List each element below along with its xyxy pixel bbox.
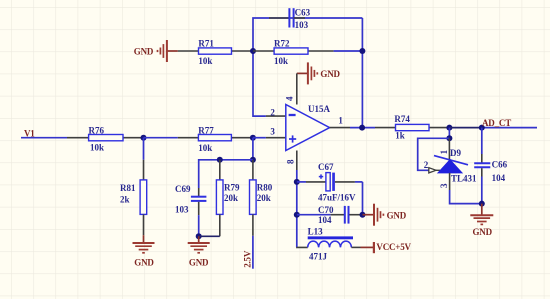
svg-text:1k: 1k (395, 131, 405, 141)
pin number 3 (270, 127, 275, 137)
svg-text:L13: L13 (308, 227, 324, 237)
ground GND at pin4 (297, 62, 341, 84)
node B junction (250, 135, 256, 141)
resistor R71 (178, 39, 253, 67)
svg-text:R76: R76 (89, 125, 105, 135)
svg-text:C66: C66 (492, 159, 508, 169)
wire mid row horizontal (199, 160, 253, 188)
pin number 8 (286, 159, 296, 164)
wire feedback loop to ref pin (418, 138, 450, 170)
wire (21, 137, 67, 139)
wire R79 bottom connector (199, 235, 220, 237)
node junction output (359, 125, 365, 131)
node junction R71/R72 (250, 48, 256, 54)
wire D9 anode to ground row (450, 190, 482, 204)
svg-text:C69: C69 (175, 184, 191, 194)
node junction mid row R79 (217, 157, 223, 163)
wire (144, 137, 178, 139)
svg-text:2.5V: 2.5V (243, 250, 253, 268)
resistor R80 (250, 160, 273, 236)
node A junction (141, 135, 147, 141)
svg-text:1: 1 (338, 115, 343, 125)
pin number 2 (270, 107, 275, 117)
op-amp U15A (286, 104, 331, 151)
svg-text:3: 3 (439, 183, 449, 188)
wire 2.5V net (252, 236, 254, 269)
svg-text:U15A: U15A (308, 104, 330, 114)
wire AD_CT row (449, 127, 537, 129)
svg-text:GND: GND (189, 258, 209, 268)
svg-text:20k: 20k (257, 193, 271, 203)
wire TL431 cathode drop (448, 128, 450, 139)
svg-text:471J: 471J (309, 252, 328, 262)
svg-text:TL431: TL431 (451, 174, 477, 184)
capacitor C67 (297, 162, 363, 203)
wire pin3 (253, 137, 286, 139)
svg-text:GND: GND (134, 258, 154, 268)
svg-text:R79: R79 (224, 182, 240, 192)
capacitor C69 (175, 184, 206, 236)
svg-text:D9: D9 (450, 148, 461, 158)
node junction feedback (446, 135, 452, 141)
capacitor C66 (474, 128, 507, 204)
svg-text:GND: GND (320, 69, 340, 79)
ground GND right of C70 (363, 204, 407, 226)
svg-text:2: 2 (270, 107, 275, 117)
capacitor C63 (269, 7, 311, 30)
power VCC+5V (361, 242, 412, 253)
svg-text:C70: C70 (318, 205, 334, 215)
resistor R72 (253, 39, 362, 67)
node junction C70 right (360, 212, 366, 218)
pin 2 arrow of D9 (429, 168, 440, 173)
svg-text:104: 104 (492, 173, 506, 183)
ground GND below R81 (133, 235, 155, 267)
wire left feedback vertical (253, 18, 362, 116)
svg-text:C67: C67 (318, 162, 334, 172)
svg-text:1: 1 (439, 149, 449, 154)
svg-text:47uF/16V: 47uF/16V (318, 193, 356, 203)
svg-text:103: 103 (175, 204, 189, 214)
svg-text:10k: 10k (90, 143, 104, 153)
ground GND bottom right (470, 204, 493, 238)
resistor R77 (178, 125, 253, 152)
node 2.5V label (243, 250, 253, 268)
pin number 3 of D9 (439, 183, 449, 188)
wire C67 right drop (362, 182, 364, 215)
svg-text:VCC+5V: VCC+5V (376, 242, 411, 252)
node V1 (24, 129, 35, 139)
node junction R72 right (359, 48, 365, 54)
node junction mid row right (250, 157, 256, 163)
svg-text:R74: R74 (394, 114, 410, 124)
wire mid row drop from node B (252, 138, 254, 160)
svg-text:104: 104 (318, 215, 332, 225)
resistor R76 (67, 125, 144, 152)
wire pin 4 (296, 73, 298, 104)
svg-text:R72: R72 (274, 39, 290, 49)
svg-text:3: 3 (270, 127, 275, 137)
node junction C67 left (294, 179, 300, 185)
svg-text:GND: GND (472, 227, 492, 237)
svg-text:GND: GND (387, 210, 407, 220)
inductor L13 (297, 227, 361, 262)
svg-text:2: 2 (424, 160, 429, 170)
svg-text:4: 4 (285, 96, 295, 101)
svg-text:20k: 20k (224, 193, 238, 203)
pin number 2 of D9 (424, 160, 429, 170)
svg-text:AD_CT: AD_CT (482, 118, 511, 128)
transistor D9 TL431 (434, 138, 477, 190)
svg-text:10k: 10k (198, 56, 212, 66)
wire R81 drop (143, 138, 145, 180)
pin number 1 (338, 115, 343, 125)
pin number 1 of D9 (439, 149, 449, 154)
svg-text:C63: C63 (295, 7, 311, 17)
wire output pin1 (330, 127, 375, 129)
node junction AD_CT (479, 125, 485, 131)
node AD_CT label (482, 118, 511, 128)
pin number 4 (285, 96, 295, 101)
svg-text:R80: R80 (257, 182, 273, 192)
ground GND below C69 (188, 236, 210, 267)
svg-text:R71: R71 (198, 39, 214, 49)
ground GND left of R71 (134, 40, 178, 62)
capacitor C70 (297, 205, 363, 225)
wire pin 8 column (296, 151, 298, 248)
resistor R79 (216, 160, 240, 237)
svg-text:103: 103 (295, 20, 309, 30)
svg-text:10k: 10k (274, 56, 288, 66)
svg-text:R81: R81 (120, 183, 136, 193)
node junction C69 bottom (196, 233, 202, 239)
svg-text:8: 8 (286, 159, 296, 164)
node junction R74 right (446, 125, 452, 131)
svg-text:R77: R77 (198, 125, 214, 135)
svg-text:2k: 2k (120, 195, 130, 205)
svg-text:GND: GND (134, 47, 154, 57)
node junction C70 left (294, 212, 300, 218)
resistor R74 (375, 114, 449, 141)
wire pin2 black (266, 115, 286, 117)
node junction bottom right (479, 201, 485, 207)
svg-text:10k: 10k (198, 143, 212, 153)
resistor R81 (120, 180, 147, 235)
wire right feedback vertical (361, 18, 363, 128)
